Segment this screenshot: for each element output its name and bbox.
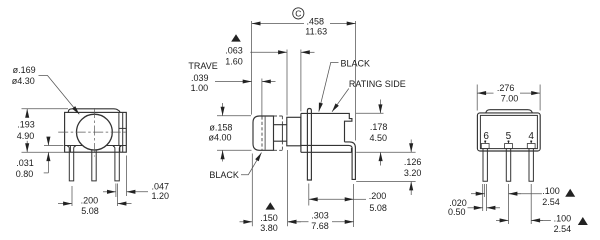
svg-text:ø4.30: ø4.30	[12, 76, 35, 86]
svg-text:ø.169: ø.169	[13, 65, 36, 75]
leader RATING SIDE	[332, 89, 349, 112]
dimension .063/1.60 extension lines	[287, 50, 301, 116]
svg-text:3.20: 3.20	[404, 168, 422, 178]
svg-text:6: 6	[483, 131, 489, 142]
dimension .276/7.00 arrows	[477, 92, 493, 94]
right view leg 1	[483, 149, 487, 182]
right view top bump	[486, 110, 533, 113]
svg-text:5: 5	[506, 131, 512, 142]
svg-text:.193: .193	[17, 120, 35, 130]
right view body outer	[477, 113, 540, 151]
svg-text:.100: .100	[542, 186, 560, 196]
dimension .303/7.68 lines	[288, 221, 309, 223]
svg-text:7.68: 7.68	[311, 221, 329, 231]
svg-text:.150: .150	[260, 213, 278, 223]
svg-text:1.20: 1.20	[152, 191, 170, 201]
left view inner wall line 1	[118, 112, 120, 145]
dimension .020/0.50 arrows	[468, 207, 483, 209]
rear bent leg and inner base line	[301, 142, 355, 180]
phantom pressed cap right face (dashed)	[281, 116, 283, 150]
svg-text:.458: .458	[307, 16, 325, 26]
centering symbol (circled C)	[293, 8, 304, 19]
dimension .458/11.63 extension lines	[252, 21, 356, 141]
left view vertical centerline	[93, 108, 95, 157]
left view leg 3	[113, 146, 121, 181]
dimension .276/7.00 extension lines	[477, 85, 540, 111]
dimension .047/1.20 extension lines	[116, 156, 127, 198]
svg-text:.039: .039	[191, 73, 209, 83]
right view leg extension lines below	[483, 184, 532, 224]
pin 4 arrow	[530, 140, 532, 143]
dimension .039/1.00 extension line	[261, 79, 263, 116]
body left edge	[300, 113, 302, 152]
svg-text:.178: .178	[370, 122, 388, 132]
svg-text:ø4.00: ø4.00	[209, 133, 232, 143]
svg-text:.126: .126	[404, 157, 422, 167]
svg-text:1.60: 1.60	[225, 57, 243, 67]
dimension .178/4.50 extension lines	[356, 112, 384, 114]
svg-text:4: 4	[528, 131, 534, 142]
dimension .193/4.90 extension lines	[22, 109, 69, 152]
svg-text:.276: .276	[497, 83, 515, 93]
svg-text:BLACK: BLACK	[341, 59, 371, 69]
svg-text:ø.158: ø.158	[209, 123, 232, 133]
svg-text:3.80: 3.80	[260, 223, 278, 233]
cap inner edge line	[264, 117, 266, 150]
button cap	[253, 116, 274, 150]
right view leg 2 collar	[505, 144, 513, 149]
bushing	[287, 117, 301, 146]
svg-text:1.00: 1.00	[191, 83, 209, 93]
svg-text:.200: .200	[369, 191, 387, 201]
left view base plate line	[65, 145, 127, 147]
pin 6 arrow	[484, 140, 486, 143]
left view foot inner edges	[70, 146, 119, 153]
dimension ø.158/ø4.00 arrows	[222, 103, 224, 116]
right view leg 3 collar	[527, 144, 535, 149]
svg-text:RATING SIDE: RATING SIDE	[349, 79, 406, 89]
left view body outline	[65, 112, 127, 152]
svg-text:.063: .063	[225, 46, 243, 56]
dimension .100/2.54 (upper) arrows	[471, 193, 485, 195]
svg-text:0.80: 0.80	[16, 169, 34, 179]
svg-text:TRAVE: TRAVE	[188, 61, 217, 71]
dimension .200/5.08 extension lines	[72, 184, 118, 207]
dimension .100/2.54 (lower) arrows	[496, 219, 509, 221]
svg-text:4.90: 4.90	[17, 131, 35, 141]
dimension .063/1.60 arrows	[250, 51, 287, 53]
front mounting tab with dome top and front leg	[307, 109, 311, 181]
dimension .200/5.08 arrows	[58, 203, 72, 205]
dimension .126/3.20 extension lines	[356, 152, 415, 181]
dimension .200/5.08 (side view) line and arrows	[354, 198, 366, 200]
leader BLACK (body)	[319, 62, 339, 111]
dimension .047/1.20 arrows	[103, 191, 116, 193]
svg-text:C: C	[295, 9, 301, 19]
svg-text:.047: .047	[152, 181, 170, 191]
right view body inner	[480, 115, 537, 148]
left view leg 2 (middle)	[92, 150, 96, 181]
body top with stepped corner	[301, 113, 352, 141]
leader BLACK (cap)	[241, 153, 262, 175]
svg-text:.200: .200	[81, 195, 99, 205]
dimension .458/11.63 lines	[252, 23, 304, 25]
svg-text:2.54: 2.54	[554, 224, 572, 233]
dimension .126/3.20 arrows	[410, 140, 412, 153]
dimension ø.158/ø4.00 extension lines	[217, 116, 252, 151]
dimension .178/4.50 arrows	[379, 100, 381, 114]
svg-text:.100: .100	[554, 213, 572, 223]
triangle marker (lower .100)	[578, 217, 588, 225]
triangle marker above .150	[266, 202, 276, 209]
dimension .150/.303 extension lines	[252, 150, 287, 226]
body bottom	[301, 148, 352, 152]
dimension .200/5.08 (side view) extension lines	[309, 184, 354, 228]
right view leg 3	[529, 149, 533, 182]
phantom pressed cap left face (dashed)	[261, 116, 263, 149]
dimension .193/4.90 lines	[26, 109, 28, 118]
svg-text:BLACK: BLACK	[209, 170, 239, 180]
triangle marker above .063	[231, 34, 241, 41]
svg-text:5.08: 5.08	[369, 203, 387, 213]
phantom pressed cap top edge (dashed)	[274, 115, 283, 117]
leader for ø.169	[39, 76, 80, 115]
svg-text:5.08: 5.08	[81, 206, 99, 216]
right view leg 1 collar	[481, 144, 489, 149]
plunger shaft	[274, 125, 287, 142]
dimension .039/1.00 arrows	[215, 81, 252, 83]
svg-text:.031: .031	[16, 158, 34, 168]
left view inner wall line 2	[122, 112, 124, 152]
left view leg 1	[67, 146, 75, 181]
dimension .150/3.80 arrows	[240, 221, 253, 223]
svg-text:7.00: 7.00	[501, 93, 519, 103]
svg-text:4.50: 4.50	[370, 133, 388, 143]
dimension .031/0.80 arrows	[47, 138, 49, 145]
left view button circle	[77, 114, 113, 150]
svg-text:2.54: 2.54	[542, 197, 560, 207]
phantom pressed cap bottom edge (dashed)	[274, 149, 283, 151]
left view side ledge	[119, 127, 126, 129]
right view leg 2	[506, 149, 510, 182]
pin 5 arrow	[508, 140, 510, 143]
svg-text:0.50: 0.50	[448, 207, 466, 217]
left view top cap	[68, 109, 120, 113]
triangle marker (upper .100)	[565, 189, 575, 197]
svg-text:11.63: 11.63	[305, 27, 327, 37]
left view horizontal centerline	[58, 131, 128, 133]
svg-text:.303: .303	[311, 210, 329, 220]
